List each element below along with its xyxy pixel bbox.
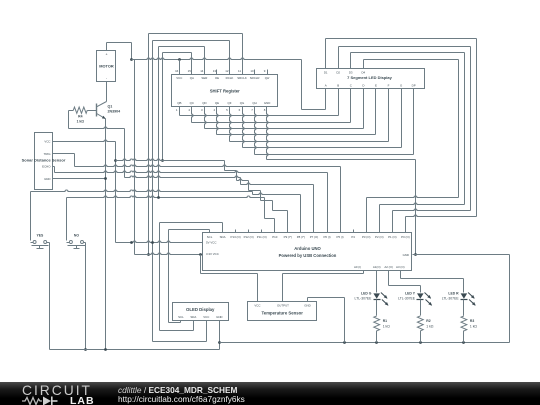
svg-text:GND: GND bbox=[216, 315, 222, 319]
svg-text:A0 (I): A0 (I) bbox=[354, 265, 361, 269]
svg-text:+: + bbox=[105, 53, 107, 57]
svg-text:4: 4 bbox=[214, 108, 216, 112]
svg-text:SHIFT Register: SHIFT Register bbox=[210, 89, 240, 94]
svg-text:QH': QH' bbox=[265, 76, 270, 80]
svg-text:7: 7 bbox=[251, 108, 253, 112]
svg-text:DP: DP bbox=[412, 83, 416, 87]
svg-text:A3 (O): A3 (O) bbox=[396, 265, 405, 269]
svg-text:OUTPUT: OUTPUT bbox=[277, 304, 289, 308]
svg-text:QA: QA bbox=[190, 76, 194, 80]
svg-text:10: 10 bbox=[250, 69, 254, 73]
svg-text:11: 11 bbox=[238, 69, 241, 73]
svg-text:A1(O): A1(O) bbox=[373, 265, 381, 269]
svg-text:VCC: VCC bbox=[254, 304, 260, 308]
svg-text:P13 (O): P13 (O) bbox=[231, 235, 241, 239]
svg-text:QG: QG bbox=[240, 101, 245, 105]
svg-text:P12 (O): P12 (O) bbox=[244, 235, 254, 239]
svg-text:2N3904: 2N3904 bbox=[108, 110, 121, 114]
svg-text:LED G: LED G bbox=[361, 292, 372, 296]
svg-text:15: 15 bbox=[188, 69, 192, 73]
svg-text:OLED Display: OLED Display bbox=[186, 307, 215, 312]
svg-text:SRCLK: SRCLK bbox=[237, 76, 247, 80]
svg-text:Sonar Distance Sensor: Sonar Distance Sensor bbox=[22, 158, 66, 163]
svg-text:R4: R4 bbox=[78, 115, 82, 119]
svg-text:A: A bbox=[325, 83, 327, 87]
svg-text:16: 16 bbox=[175, 69, 179, 73]
svg-text:QC: QC bbox=[190, 101, 194, 105]
svg-text:SDA: SDA bbox=[190, 315, 196, 319]
svg-text:R1: R1 bbox=[383, 319, 387, 323]
svg-text:1 kΩ: 1 kΩ bbox=[383, 324, 391, 328]
svg-text:C: C bbox=[350, 83, 352, 87]
svg-text:RCLK: RCLK bbox=[226, 76, 234, 80]
svg-text:NO: NO bbox=[74, 234, 79, 238]
svg-text:P3 (O): P3 (O) bbox=[362, 235, 371, 239]
svg-text:QH: QH bbox=[252, 101, 256, 105]
svg-text:R2: R2 bbox=[426, 319, 430, 323]
svg-text:E: E bbox=[375, 83, 377, 87]
svg-text:13: 13 bbox=[213, 69, 217, 73]
svg-text:A2 (O): A2 (O) bbox=[384, 265, 393, 269]
svg-text:OE: OE bbox=[215, 76, 219, 80]
svg-text:1 kΩ: 1 kΩ bbox=[77, 120, 85, 124]
svg-text:P10: P10 bbox=[272, 235, 278, 239]
svg-text:D: D bbox=[362, 83, 364, 87]
svg-text:VCC: VCC bbox=[44, 139, 50, 143]
svg-text:LTL-307EE: LTL-307EE bbox=[398, 297, 416, 301]
svg-text:TRIG: TRIG bbox=[44, 152, 52, 156]
svg-text:QB: QB bbox=[177, 101, 181, 105]
svg-text:P7 (O): P7 (O) bbox=[310, 235, 319, 239]
svg-text:1 kΩ: 1 kΩ bbox=[470, 324, 478, 328]
svg-text:R3: R3 bbox=[470, 319, 474, 323]
svg-text:Q1: Q1 bbox=[108, 105, 113, 109]
svg-text:1: 1 bbox=[176, 108, 178, 112]
svg-text:5V VCC: 5V VCC bbox=[206, 241, 216, 245]
svg-text:Temperature Sensor: Temperature Sensor bbox=[262, 311, 304, 316]
svg-text:SER: SER bbox=[201, 76, 207, 80]
svg-text:B: B bbox=[337, 83, 339, 87]
svg-text:SCL: SCL bbox=[207, 235, 213, 239]
svg-text:F: F bbox=[388, 83, 390, 87]
svg-text:14: 14 bbox=[200, 69, 204, 73]
svg-text:Arduino UNO: Arduino UNO bbox=[294, 246, 321, 251]
svg-text:P1 (O): P1 (O) bbox=[388, 235, 397, 239]
svg-text:GND: GND bbox=[403, 253, 409, 257]
svg-text:GND: GND bbox=[264, 101, 270, 105]
svg-text:LTL-307EE: LTL-307EE bbox=[354, 297, 372, 301]
svg-text:MOTOR: MOTOR bbox=[99, 64, 114, 69]
svg-text:LED R: LED R bbox=[448, 292, 459, 296]
svg-text:D1: D1 bbox=[324, 71, 328, 75]
svg-text:9: 9 bbox=[264, 69, 266, 73]
svg-text:LTL-307EE: LTL-307EE bbox=[442, 297, 460, 301]
svg-text:P8 (I^): P8 (I^) bbox=[297, 235, 305, 239]
svg-text:LED Y: LED Y bbox=[405, 292, 416, 296]
svg-text:VCC: VCC bbox=[203, 315, 209, 319]
svg-text:GND: GND bbox=[304, 304, 310, 308]
svg-text:QD: QD bbox=[202, 101, 206, 105]
svg-text:GND: GND bbox=[44, 177, 50, 181]
svg-text:SRCLR: SRCLR bbox=[250, 76, 260, 80]
svg-text:8: 8 bbox=[264, 108, 266, 112]
svg-text:D4: D4 bbox=[361, 71, 365, 75]
svg-text:12: 12 bbox=[225, 69, 229, 73]
svg-text:D2: D2 bbox=[336, 71, 340, 75]
svg-text:YES: YES bbox=[37, 234, 45, 238]
svg-text:D3: D3 bbox=[349, 71, 353, 75]
svg-text:3: 3 bbox=[201, 108, 203, 112]
svg-text:ECHO: ECHO bbox=[42, 165, 51, 169]
svg-text:P6 (I): P6 (I) bbox=[324, 235, 331, 239]
svg-text:Powered by USB Connection: Powered by USB Connection bbox=[279, 253, 337, 258]
svg-text:7 Segment LED Display: 7 Segment LED Display bbox=[347, 75, 392, 80]
svg-text:5: 5 bbox=[226, 108, 228, 112]
svg-text:P2 (O): P2 (O) bbox=[375, 235, 384, 239]
svg-text:SDA: SDA bbox=[220, 235, 226, 239]
svg-text:P4: P4 bbox=[351, 235, 355, 239]
svg-text:6: 6 bbox=[239, 108, 241, 112]
svg-text:P0 (O): P0 (O) bbox=[401, 235, 410, 239]
svg-text:P5 (I): P5 (I) bbox=[337, 235, 344, 239]
svg-text:VCC: VCC bbox=[176, 76, 182, 80]
svg-text:2: 2 bbox=[188, 108, 190, 112]
svg-text:SCL: SCL bbox=[178, 315, 184, 319]
svg-text:P9 (I^): P9 (I^) bbox=[284, 235, 292, 239]
svg-text:3.3V VCC: 3.3V VCC bbox=[206, 252, 219, 256]
svg-text:P11 (O): P11 (O) bbox=[257, 235, 267, 239]
svg-text:QE: QE bbox=[215, 101, 219, 105]
svg-text:1 kΩ: 1 kΩ bbox=[426, 324, 434, 328]
svg-text:QF: QF bbox=[227, 101, 231, 105]
